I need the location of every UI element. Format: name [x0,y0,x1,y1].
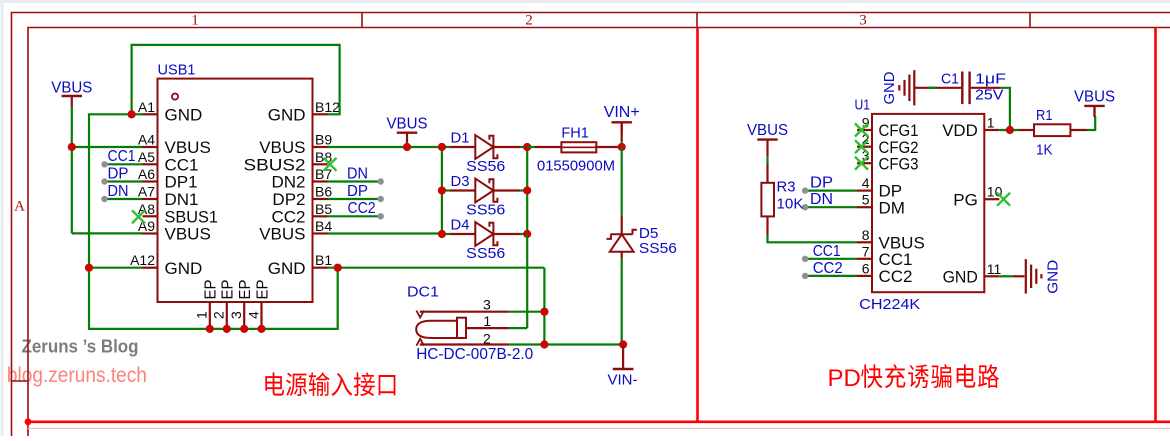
svg-text:DC1: DC1 [407,283,439,300]
svg-text:10K: 10K [777,195,804,212]
svg-text:EP: EP [220,280,237,300]
svg-text:DP: DP [347,183,368,200]
svg-text:1: 1 [987,115,995,131]
svg-text:3: 3 [228,311,244,319]
svg-text:VDD: VDD [942,121,978,140]
svg-text:SBUS2: SBUS2 [244,155,306,174]
svg-text:D4: D4 [451,216,470,233]
svg-text:4: 4 [245,311,261,319]
svg-text:GND: GND [881,71,898,104]
svg-text:VIN-: VIN- [608,371,638,388]
svg-text:R1: R1 [1036,107,1053,124]
svg-text:B9: B9 [315,132,332,148]
svg-text:GND: GND [268,259,306,278]
svg-text:A: A [14,199,25,215]
svg-text:D1: D1 [451,129,470,146]
svg-text:1: 1 [191,13,199,29]
svg-text:GND: GND [1045,260,1062,294]
svg-text:SS56: SS56 [639,240,677,257]
svg-text:USB1: USB1 [158,62,196,79]
svg-text:HC-DC-007B-2.0: HC-DC-007B-2.0 [416,346,533,363]
svg-text:B7: B7 [315,166,332,182]
svg-text:CC1: CC1 [813,243,841,260]
svg-text:SS56: SS56 [466,158,505,175]
svg-text:B5: B5 [315,201,332,217]
svg-text:A6: A6 [138,166,155,182]
svg-text:DN1: DN1 [165,190,199,209]
svg-text:DM: DM [879,198,905,217]
svg-text:VBUS: VBUS [51,80,92,97]
svg-text:A5: A5 [138,149,155,165]
svg-text:11: 11 [987,261,1002,277]
svg-text:VBUS: VBUS [165,138,211,157]
svg-text:U1: U1 [855,97,871,114]
svg-text:VBUS: VBUS [387,116,428,133]
svg-text:CC2: CC2 [879,267,913,286]
svg-text:4: 4 [862,175,870,191]
svg-text:GND: GND [943,267,978,286]
svg-text:B6: B6 [315,184,332,200]
svg-text:CC2: CC2 [348,200,376,217]
svg-text:CC2: CC2 [271,207,305,226]
svg-text:1K: 1K [1036,141,1053,158]
svg-text:D3: D3 [451,173,470,190]
svg-text:SS56: SS56 [466,245,505,262]
svg-text:DP1: DP1 [165,173,198,192]
svg-text:DN2: DN2 [271,173,305,192]
svg-text:2: 2 [211,311,227,319]
svg-text:CC1: CC1 [165,155,199,174]
svg-text:3: 3 [859,13,867,29]
svg-text:CC1: CC1 [108,148,136,165]
svg-text:3: 3 [483,296,491,312]
svg-text:B12: B12 [315,99,340,115]
svg-text:A1: A1 [138,99,155,115]
svg-text:VBUS: VBUS [259,225,305,244]
svg-text:2: 2 [525,13,533,29]
svg-text:DP: DP [108,165,129,182]
svg-text:A4: A4 [138,132,155,148]
svg-text:01550900M: 01550900M [537,157,615,174]
svg-text:GND: GND [165,259,203,278]
svg-text:2: 2 [483,330,491,346]
svg-text:VBUS: VBUS [259,138,305,157]
svg-text:CH224K: CH224K [859,296,920,313]
svg-text:6: 6 [862,260,870,276]
svg-text:DN: DN [347,165,368,182]
svg-text:Zeruns ’s Blog: Zeruns ’s Blog [22,337,139,357]
svg-text:CC2: CC2 [813,260,843,277]
svg-text:1: 1 [194,311,210,319]
svg-text:A7: A7 [138,184,155,200]
svg-text:DP: DP [810,175,833,192]
svg-text:CFG3: CFG3 [879,154,919,173]
svg-text:PG: PG [953,190,978,209]
svg-text:PD: PD [828,365,861,392]
svg-text:C1: C1 [941,71,959,88]
svg-text:7: 7 [862,243,870,259]
svg-text:GND: GND [268,105,306,124]
svg-text:VBUS: VBUS [1074,88,1115,105]
svg-text:EP: EP [237,280,254,300]
svg-text:A12: A12 [130,252,155,268]
svg-text:R3: R3 [777,178,796,195]
svg-text:8: 8 [862,227,870,243]
svg-text:1: 1 [483,313,491,329]
svg-text:1μF: 1μF [975,71,1006,88]
svg-text:VBUS: VBUS [165,225,211,244]
svg-text:SBUS1: SBUS1 [165,207,219,226]
svg-text:GND: GND [165,105,203,124]
svg-text:SS56: SS56 [466,202,505,219]
svg-text:B4: B4 [315,218,332,234]
svg-text:DN: DN [108,183,129,200]
svg-text:EP: EP [203,280,220,300]
svg-text:FH1: FH1 [561,125,589,142]
svg-text:DN: DN [810,191,833,208]
svg-text:VIN+: VIN+ [604,104,640,121]
svg-text:VBUS: VBUS [747,122,788,139]
svg-text:EP: EP [254,280,271,300]
svg-text:5: 5 [862,192,870,208]
svg-text:DP2: DP2 [272,190,305,209]
svg-text:B1: B1 [315,252,332,268]
